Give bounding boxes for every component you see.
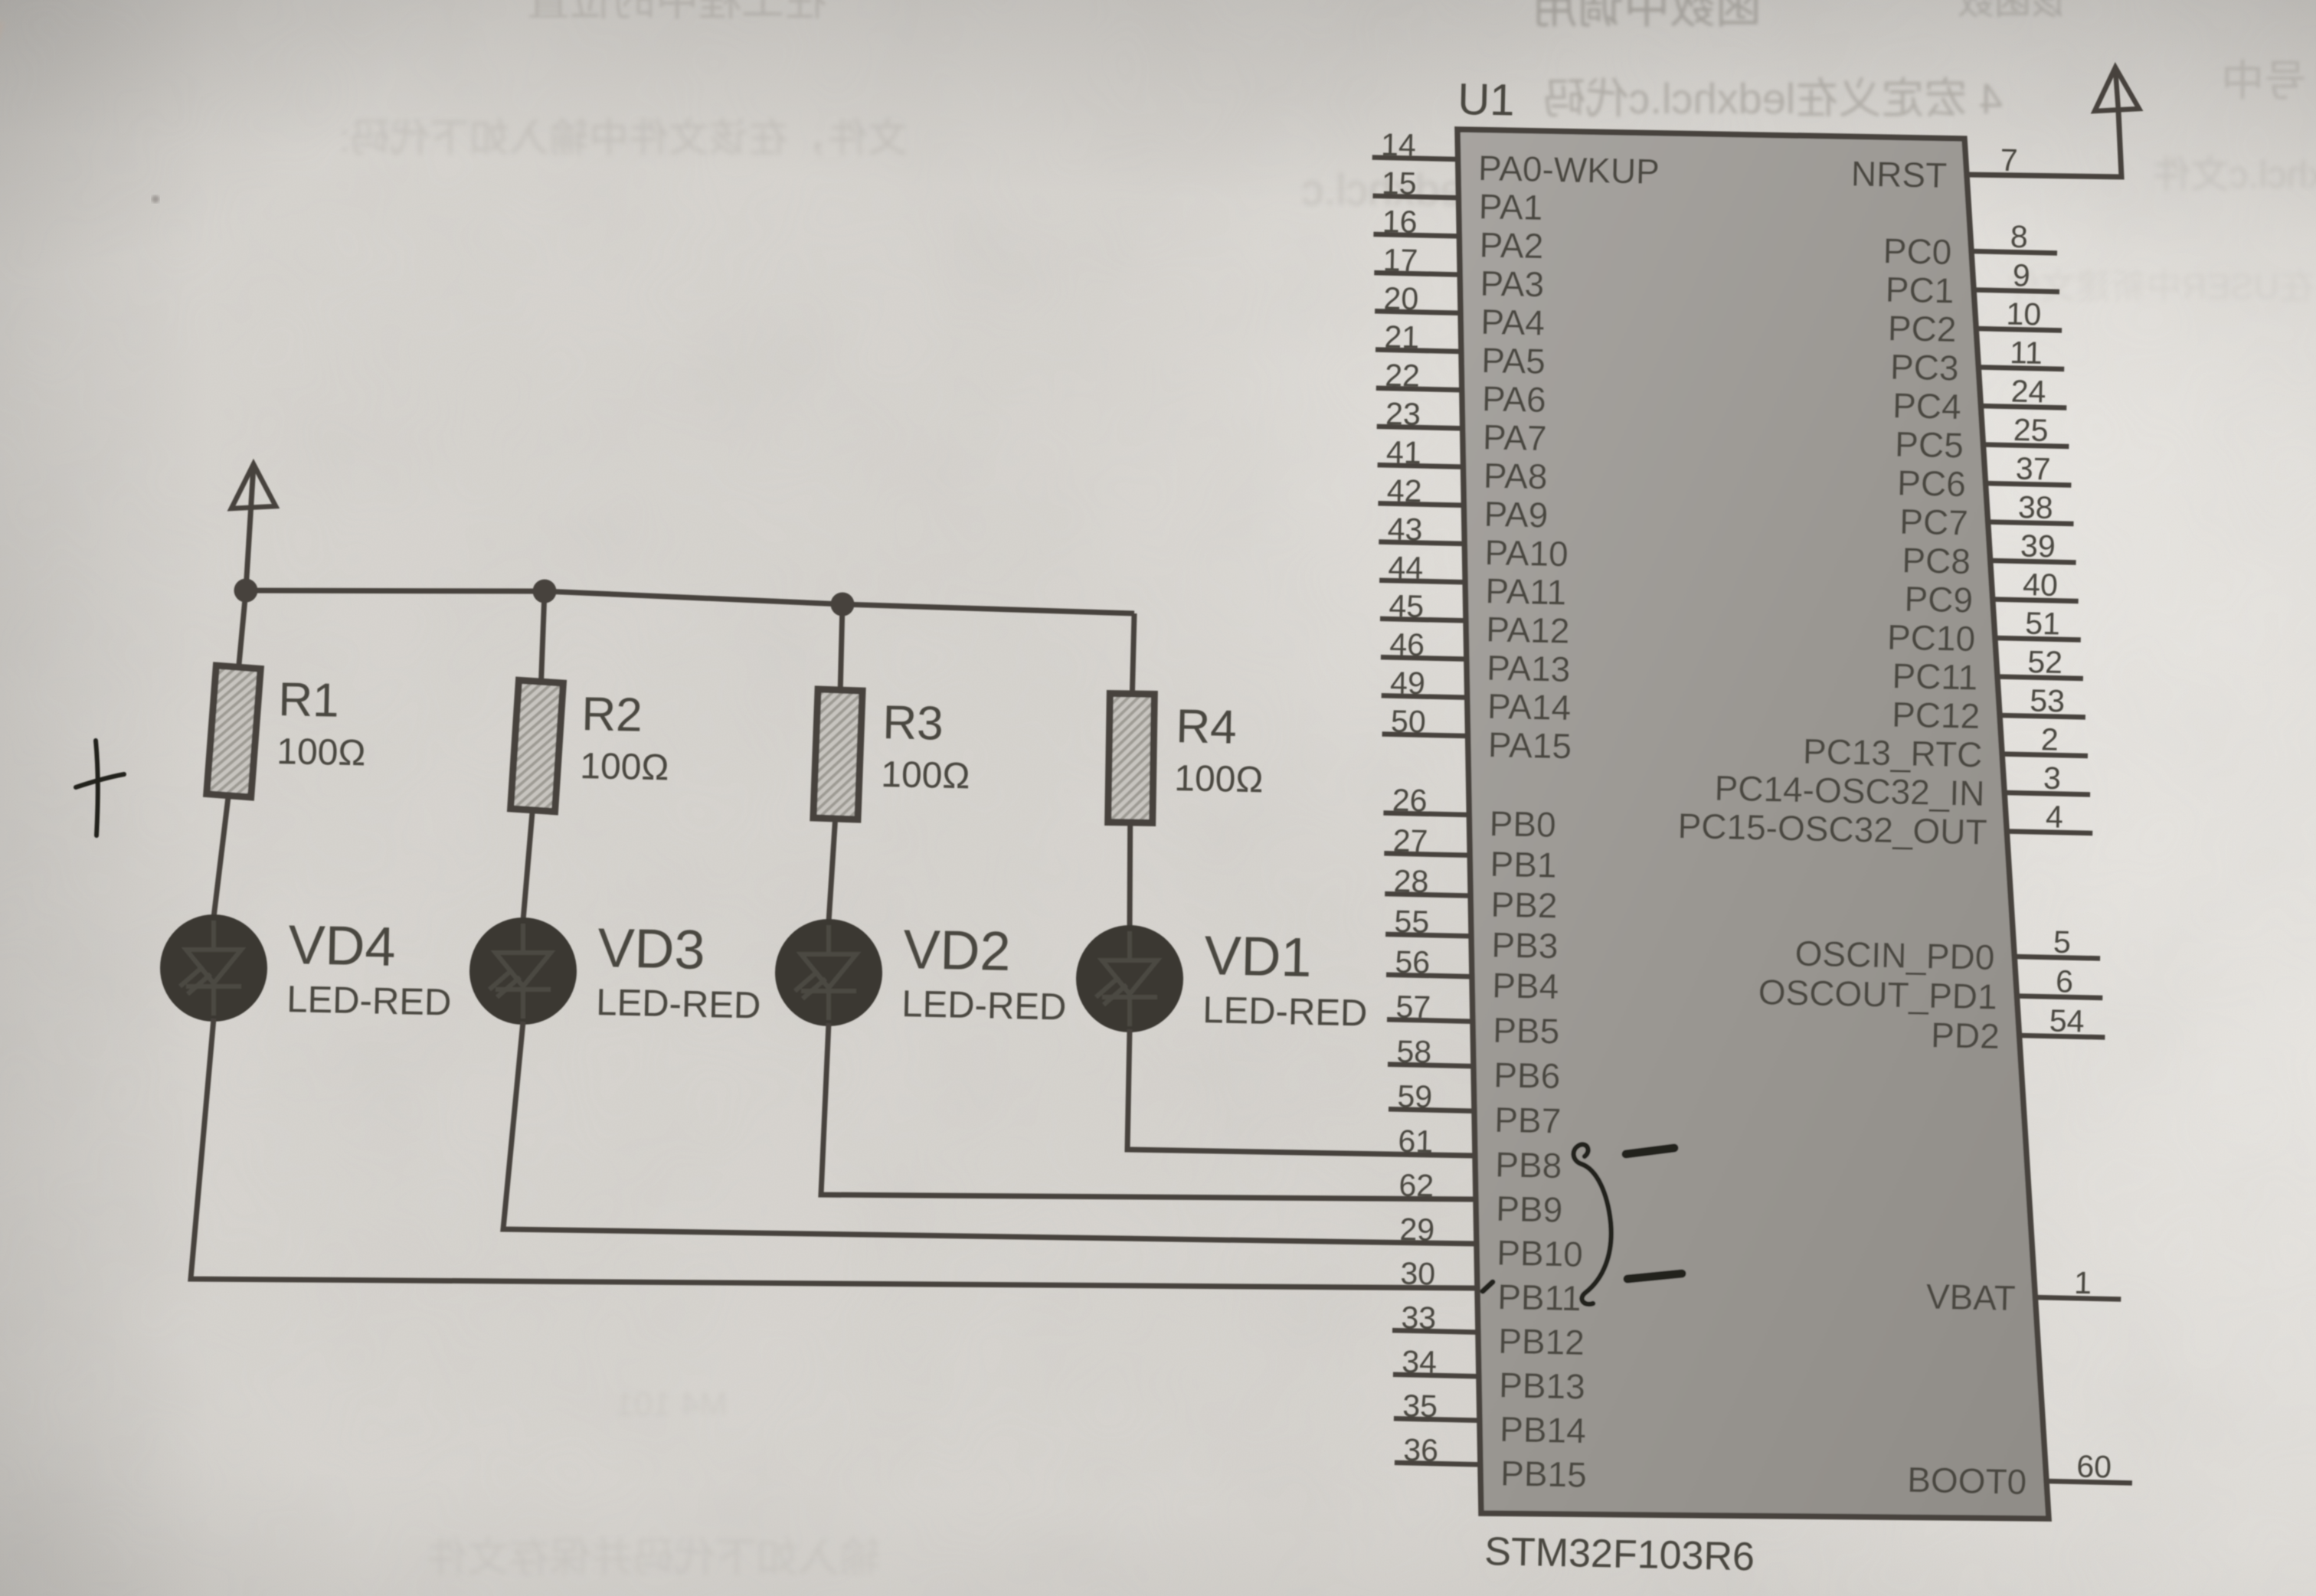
pin 20 (PA4) — [1375, 280, 1545, 342]
svg-text:61: 61 — [1398, 1123, 1434, 1159]
pin 29 (PB10) — [1399, 1212, 1583, 1274]
svg-text:LED-RED: LED-RED — [1202, 989, 1368, 1034]
svg-text:34: 34 — [1402, 1344, 1438, 1380]
wire: R4 bottom to VD1 top — [1127, 819, 1133, 928]
pin 49 (PA14) — [1382, 665, 1572, 728]
svg-text:56: 56 — [1395, 944, 1431, 980]
svg-text:100Ω: 100Ω — [1174, 758, 1264, 800]
pin 11 (PC3) — [1890, 335, 2065, 388]
svg-text:50: 50 — [1391, 704, 1427, 740]
pin 41 (PA8) — [1378, 434, 1548, 496]
pin 36 (PB15) — [1395, 1432, 1587, 1495]
pin 58 (PB6) — [1388, 1034, 1561, 1096]
svg-text:24: 24 — [2010, 374, 2046, 410]
pin 8 (PC0) — [1883, 219, 2057, 272]
svg-text:5: 5 — [2053, 924, 2072, 960]
svg-text:VBAT: VBAT — [1925, 1277, 2016, 1318]
wire: VD1 to IC pin (long route) — [1127, 1029, 1475, 1156]
svg-text:PB14: PB14 — [1500, 1409, 1587, 1450]
wire: bus to R3 top — [840, 604, 842, 693]
resistor R3 — [813, 689, 862, 819]
resistor R2 — [511, 680, 564, 811]
pin 54 (PD2) — [1931, 1003, 2105, 1056]
svg-text:PB2: PB2 — [1490, 885, 1558, 926]
svg-text:52: 52 — [2027, 644, 2063, 680]
pin 38 (PC7) — [1899, 489, 2074, 542]
svg-text:54: 54 — [2049, 1003, 2085, 1039]
svg-text:PA12: PA12 — [1486, 609, 1570, 650]
svg-text:23: 23 — [1385, 396, 1421, 432]
svg-text:PC1: PC1 — [1885, 270, 1955, 311]
pin 4 (PC15-OSC32_OUT) — [1677, 799, 2092, 852]
svg-text:9: 9 — [2012, 257, 2030, 293]
svg-text:PC10: PC10 — [1887, 617, 1976, 659]
svg-text:57: 57 — [1395, 989, 1431, 1025]
svg-text:30: 30 — [1400, 1256, 1436, 1292]
svg-text:PC12: PC12 — [1892, 695, 1981, 736]
svg-text:PB3: PB3 — [1491, 924, 1559, 966]
svg-text:35: 35 — [1402, 1388, 1438, 1424]
pin 10 (PC2) — [1887, 296, 2062, 349]
pin 57 (PB5) — [1387, 989, 1560, 1051]
pin 39 (PC8) — [1902, 528, 2076, 581]
svg-text:20: 20 — [1383, 280, 1419, 316]
svg-text:PA2: PA2 — [1479, 224, 1544, 266]
svg-text:STM32F103R6: STM32F103R6 — [1484, 1529, 1755, 1579]
svg-text:LED-RED: LED-RED — [596, 982, 761, 1026]
svg-text:27: 27 — [1392, 823, 1428, 859]
pin 44 (PA11) — [1379, 550, 1567, 613]
pin 45 (PA12) — [1380, 588, 1570, 651]
pin 43 (PA10) — [1379, 512, 1569, 574]
svg-text:22: 22 — [1385, 358, 1421, 394]
svg-text:41: 41 — [1386, 434, 1422, 470]
svg-text:OSCIN_PD0: OSCIN_PD0 — [1794, 934, 1995, 977]
wire: bus to R2 top — [541, 591, 545, 685]
pin 27 (PB1) — [1384, 823, 1557, 885]
svg-text:100Ω: 100Ω — [881, 754, 970, 796]
svg-text:PB5: PB5 — [1493, 1010, 1560, 1051]
svg-text:100Ω: 100Ω — [276, 731, 366, 773]
svg-text:16: 16 — [1382, 204, 1418, 240]
svg-text:10: 10 — [2006, 296, 2042, 332]
svg-text:PB10: PB10 — [1497, 1232, 1584, 1274]
handwritten plus mark (left margin) — [76, 741, 124, 836]
pin 21 (PA5) — [1376, 319, 1546, 381]
svg-text:PA0-WKUP: PA0-WKUP — [1477, 148, 1660, 191]
svg-text:62: 62 — [1398, 1167, 1434, 1203]
LED VD2 — [775, 919, 882, 1026]
pin 53 (PC12) — [1892, 683, 2085, 736]
svg-text:15: 15 — [1382, 165, 1418, 201]
svg-text:NRST: NRST — [1850, 153, 1947, 195]
pin 61 (PB8) — [1398, 1123, 1562, 1186]
svg-text:46: 46 — [1389, 626, 1425, 662]
wire: VD2 to IC pin (long route) — [821, 1023, 1476, 1199]
svg-text:VD3: VD3 — [597, 917, 706, 981]
wire: R2 bottom to VD3 top — [523, 807, 533, 921]
svg-text:PA11: PA11 — [1485, 571, 1567, 612]
svg-text:36: 36 — [1403, 1432, 1439, 1468]
svg-text:25: 25 — [2013, 412, 2049, 448]
svg-text:29: 29 — [1399, 1212, 1435, 1248]
wire: top horizontal bus node A to R4 column — [246, 590, 1134, 613]
pin 14 (PA0-WKUP) — [1372, 127, 1660, 191]
pin 5 (OSCIN_PD0) — [1794, 924, 2100, 977]
resistor R1 — [207, 666, 260, 797]
pin 7 (NRST) — [1850, 142, 2018, 195]
svg-text:42: 42 — [1386, 473, 1422, 509]
svg-text:PC9: PC9 — [1904, 579, 1974, 620]
node B (bus / R2 column junction) — [533, 580, 557, 603]
svg-text:1: 1 — [2074, 1265, 2092, 1300]
pin 17 (PA3) — [1374, 242, 1544, 304]
svg-text:PC13_RTC: PC13_RTC — [1802, 731, 1982, 775]
svg-text:45: 45 — [1389, 588, 1425, 624]
svg-text:100Ω: 100Ω — [580, 746, 669, 788]
svg-text:17: 17 — [1382, 242, 1418, 278]
pin 55 (PB3) — [1385, 904, 1559, 966]
svg-text:28: 28 — [1393, 863, 1429, 899]
svg-text:PC0: PC0 — [1883, 231, 1952, 272]
wire: R3 bottom to VD2 top — [829, 816, 836, 922]
pin 2 (PC13_RTC) — [1802, 721, 2088, 774]
svg-text:PC4: PC4 — [1892, 385, 1962, 427]
svg-text:PA10: PA10 — [1484, 532, 1569, 574]
svg-text:11: 11 — [2010, 335, 2043, 371]
pin 1 (VBAT) — [1925, 1265, 2121, 1318]
svg-text:38: 38 — [2018, 489, 2054, 525]
svg-text:4: 4 — [2046, 799, 2064, 834]
node C (bus / R3 column junction) — [831, 593, 855, 616]
svg-text:PB9: PB9 — [1496, 1189, 1563, 1230]
pen dash 2 (near PB11) — [1627, 1274, 1682, 1279]
svg-text:PA4: PA4 — [1480, 302, 1546, 343]
LED VD4 — [160, 914, 267, 1022]
svg-text:R3: R3 — [882, 696, 944, 751]
svg-text:8: 8 — [2010, 219, 2028, 254]
pin 46 (PA13) — [1381, 626, 1571, 689]
svg-text:2: 2 — [2040, 721, 2059, 757]
svg-text:PC15-OSC32_OUT: PC15-OSC32_OUT — [1677, 806, 1987, 852]
svg-text:PB12: PB12 — [1498, 1321, 1585, 1362]
pin 59 (PB7) — [1389, 1078, 1562, 1140]
svg-text:44: 44 — [1388, 550, 1424, 586]
pin 51 (PC10) — [1887, 606, 2081, 659]
svg-text:59: 59 — [1397, 1078, 1433, 1114]
svg-text:3: 3 — [2043, 760, 2062, 796]
svg-text:PC3: PC3 — [1890, 347, 1960, 388]
LED VD3 — [469, 917, 577, 1025]
svg-text:PB11: PB11 — [1497, 1277, 1582, 1318]
svg-text:58: 58 — [1396, 1034, 1432, 1070]
svg-text:VD1: VD1 — [1204, 925, 1313, 989]
svg-text:PC11: PC11 — [1892, 656, 1978, 697]
svg-text:60: 60 — [2076, 1449, 2112, 1485]
svg-text:21: 21 — [1384, 319, 1420, 355]
LED VD1 — [1076, 925, 1183, 1032]
svg-text:PC14-OSC32_IN: PC14-OSC32_IN — [1714, 768, 1985, 813]
pin 52 (PC11) — [1892, 644, 2083, 697]
wire: R1 bottom to VD4 top — [214, 793, 229, 917]
svg-text:33: 33 — [1401, 1300, 1437, 1336]
svg-text:PB13: PB13 — [1499, 1365, 1586, 1406]
svg-text:PA13: PA13 — [1487, 648, 1571, 689]
wire: bus to R1 top — [238, 590, 246, 670]
pin 60 (BOOT0) — [1907, 1449, 2132, 1502]
svg-text:PA9: PA9 — [1483, 494, 1549, 535]
svg-text:PB7: PB7 — [1494, 1100, 1562, 1141]
pen dash 1 (near PB8) — [1626, 1148, 1674, 1154]
svg-text:37: 37 — [2015, 451, 2051, 487]
svg-text:PA14: PA14 — [1487, 686, 1571, 728]
pin 30 (PB11) — [1400, 1256, 1582, 1319]
wire: VD4 to IC pin (long route) — [191, 1019, 1477, 1288]
pin 22 (PA6) — [1376, 358, 1546, 420]
wire: NRST to power flag — [1967, 111, 2121, 177]
pin 28 (PB2) — [1385, 863, 1558, 925]
svg-text:40: 40 — [2023, 567, 2059, 603]
pin 24 (PC4) — [1892, 374, 2067, 427]
svg-text:PB1: PB1 — [1490, 844, 1557, 885]
svg-text:R2: R2 — [581, 688, 643, 742]
pin 6 (OSCOUT_PD1) — [1758, 963, 2102, 1016]
power flag (VCC) left — [231, 464, 276, 509]
svg-text:PA1: PA1 — [1478, 186, 1543, 227]
svg-text:VD4: VD4 — [288, 914, 397, 978]
svg-text:53: 53 — [2030, 683, 2066, 719]
svg-text:PB4: PB4 — [1492, 965, 1559, 1006]
pin 35 (PB14) — [1394, 1388, 1586, 1450]
pin 16 (PA2) — [1373, 204, 1543, 266]
svg-text:PC8: PC8 — [1902, 540, 1971, 581]
svg-text:PA15: PA15 — [1487, 724, 1572, 766]
wire: bus to R4 top — [1132, 613, 1134, 697]
pin 40 (PC9) — [1904, 567, 2079, 620]
pin 37 (PC6) — [1897, 451, 2072, 504]
svg-text:PC2: PC2 — [1887, 308, 1957, 349]
handwritten brace mark near PB8-PB11 — [1574, 1144, 1611, 1304]
svg-text:49: 49 — [1390, 665, 1426, 701]
svg-text:26: 26 — [1392, 783, 1428, 819]
IC U1 body (STM32F103R6) — [1457, 129, 2049, 1519]
resistor R4 — [1108, 694, 1155, 823]
pin 42 (PA9) — [1378, 473, 1548, 535]
pin 15 (PA1) — [1373, 165, 1543, 227]
svg-text:PA5: PA5 — [1481, 340, 1546, 381]
svg-text:PB15: PB15 — [1500, 1453, 1588, 1494]
svg-text:VD2: VD2 — [903, 919, 1012, 983]
pin 25 (PC5) — [1895, 412, 2069, 465]
pin 56 (PB4) — [1386, 944, 1559, 1006]
svg-text:43: 43 — [1387, 512, 1423, 548]
node A (bus / R1 column junction) — [234, 579, 258, 603]
wire: VD3 to IC pin (long route) — [503, 1022, 1477, 1244]
svg-text:PA7: PA7 — [1482, 417, 1547, 458]
svg-text:PC5: PC5 — [1895, 424, 1964, 466]
svg-text:OSCOUT_PD1: OSCOUT_PD1 — [1758, 972, 1997, 1017]
svg-text:PA3: PA3 — [1480, 263, 1545, 305]
pin 50 (PA15) — [1382, 704, 1572, 767]
svg-text:PB0: PB0 — [1489, 803, 1556, 845]
svg-text:PB8: PB8 — [1495, 1144, 1562, 1186]
svg-text:PC7: PC7 — [1899, 502, 1969, 543]
svg-text:LED-RED: LED-RED — [901, 983, 1067, 1028]
pin 34 (PB13) — [1393, 1344, 1585, 1407]
svg-text:6: 6 — [2056, 963, 2074, 999]
svg-text:39: 39 — [2020, 528, 2056, 564]
svg-text:R1: R1 — [278, 673, 340, 728]
svg-text:BOOT0: BOOT0 — [1907, 1460, 2027, 1502]
svg-text:LED-RED: LED-RED — [286, 979, 452, 1023]
wire: power flag to node A — [246, 466, 254, 590]
svg-text:14: 14 — [1381, 127, 1417, 163]
pin 26 (PB0) — [1383, 783, 1556, 845]
pin 62 (PB9) — [1398, 1167, 1563, 1229]
svg-text:PA8: PA8 — [1483, 456, 1548, 497]
pin 33 (PB12) — [1392, 1300, 1585, 1362]
svg-text:R4: R4 — [1176, 700, 1238, 754]
svg-text:51: 51 — [2025, 606, 2061, 642]
pen tick before PB11 — [1483, 1282, 1493, 1291]
svg-text:PD2: PD2 — [1931, 1015, 2000, 1056]
pin 9 (PC1) — [1885, 257, 2059, 310]
svg-text:PB6: PB6 — [1493, 1055, 1561, 1096]
pin 3 (PC14-OSC32_IN) — [1714, 760, 2090, 813]
svg-text:PC6: PC6 — [1897, 463, 1967, 504]
svg-text:55: 55 — [1394, 904, 1430, 940]
svg-text:U1: U1 — [1457, 74, 1516, 126]
pin 23 (PA7) — [1377, 396, 1547, 458]
power flag (VCC) at NRST — [2095, 67, 2139, 111]
svg-text:PA6: PA6 — [1482, 378, 1547, 420]
